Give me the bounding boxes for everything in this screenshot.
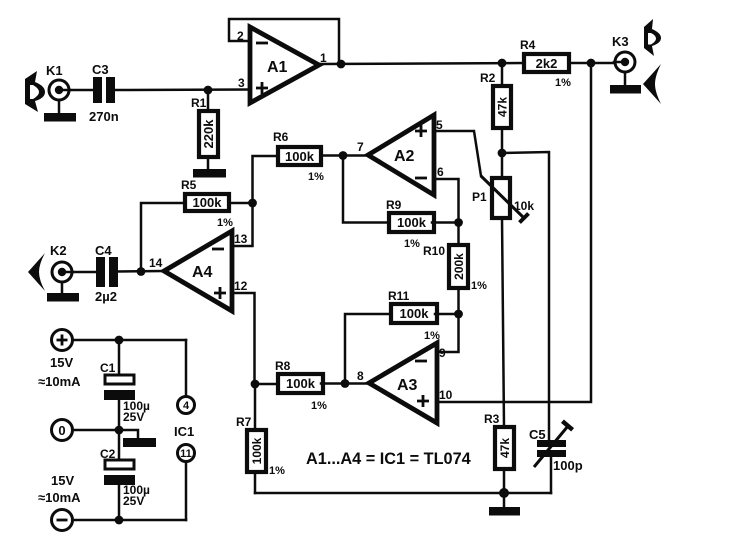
input arrow at K3 [643, 64, 661, 104]
node junction -15V [115, 516, 124, 525]
svg-text:25V: 25V [123, 410, 144, 424]
svg-text:2k2: 2k2 [536, 56, 558, 71]
svg-text:11: 11 [180, 448, 192, 460]
svg-text:≈10mA: ≈10mA [38, 374, 81, 389]
svg-text:14: 14 [149, 256, 163, 270]
wire C1 to 0 rail [118, 400, 121, 430]
svg-text:≈10mA: ≈10mA [38, 490, 81, 505]
wire node to P1 [501, 153, 504, 178]
svg-text:A3: A3 [397, 377, 418, 394]
wire 0 rail [73, 429, 119, 432]
IC1 pin 4 [178, 397, 195, 414]
node junction R9/R10 [454, 218, 463, 227]
svg-text:K3: K3 [612, 34, 629, 49]
op-amp A3 [369, 343, 437, 423]
node junction R2 top [498, 59, 507, 68]
node junction R5/pin13 [248, 199, 257, 208]
node junction K3 [587, 59, 596, 68]
svg-text:6: 6 [437, 165, 444, 179]
svg-text:7: 7 [357, 140, 364, 154]
wire -15V rail [73, 519, 186, 522]
wire A1 feedback loop pin2 [229, 19, 339, 64]
wire +rail to IC1 pin4 [185, 340, 188, 397]
node junction A3 pin8 [341, 379, 350, 388]
ground (bottom) [489, 493, 520, 516]
svg-text:100k: 100k [400, 306, 430, 321]
svg-text:1%: 1% [471, 280, 487, 292]
wire node to R7 [254, 384, 257, 430]
svg-text:R7: R7 [236, 415, 252, 429]
node junction R1 [204, 86, 213, 95]
svg-text:K1: K1 [46, 63, 63, 78]
svg-text:4: 4 [183, 400, 190, 412]
node junction 0 [115, 426, 124, 435]
connector K1 [49, 80, 70, 100]
capacitor C1 (electrolytic) [104, 375, 135, 400]
svg-text:9: 9 [439, 346, 446, 360]
op-amp A4 [164, 231, 232, 311]
svg-text:100k: 100k [397, 215, 427, 230]
svg-text:47k: 47k [496, 97, 510, 117]
svg-text:2µ2: 2µ2 [95, 289, 117, 304]
potentiometer P1 [481, 176, 529, 223]
svg-text:15V: 15V [50, 355, 73, 370]
op-amp A2 [368, 115, 434, 195]
ground (R1) [193, 169, 226, 178]
node junction R7/R8 [251, 380, 260, 389]
connector K3 [614, 52, 635, 72]
wire node to C1 [118, 340, 121, 375]
wire C5 to bottom rail [550, 457, 553, 493]
svg-text:R2: R2 [480, 71, 496, 85]
svg-text:1%: 1% [308, 171, 324, 183]
resistor R2 [493, 86, 511, 128]
wire R6 left down to A4 pin13 [233, 156, 278, 246]
wire 0 to C2 [118, 430, 121, 460]
wire A1 output [319, 63, 524, 64]
resistor R5 [185, 194, 229, 211]
svg-text:100k: 100k [250, 437, 264, 464]
svg-text:C1: C1 [100, 361, 116, 375]
wire node to A3 pin8 [345, 382, 369, 385]
svg-text:200k: 200k [452, 253, 466, 280]
svg-text:10k: 10k [514, 199, 534, 213]
wire node to C5 branch [502, 152, 549, 440]
op-amp A1 [250, 27, 319, 103]
resistor R6 [278, 147, 321, 165]
capacitor C3 [93, 77, 115, 103]
resistor R1 [199, 111, 218, 157]
wire node up to R5 [141, 203, 183, 272]
input arrow at K1 [25, 71, 45, 112]
resistor R4 [524, 54, 569, 72]
svg-text:K2: K2 [50, 243, 67, 258]
node junction C1 top [115, 336, 124, 345]
wire A4 pin12 down to R7 node [232, 293, 255, 384]
wire P1 to R3 [502, 218, 504, 427]
wire +15V rail [73, 339, 186, 342]
input arrow at K2 [28, 253, 45, 291]
wire node to R10 [457, 223, 460, 246]
wire C3 to A1 pin 3 [115, 88, 250, 91]
svg-text:R5: R5 [181, 178, 197, 192]
svg-text:3: 3 [238, 76, 245, 90]
svg-text:12: 12 [234, 279, 248, 293]
svg-text:8: 8 [357, 369, 364, 383]
wire R8 to node [321, 382, 345, 385]
svg-text:A1...A4 = IC1 = TL074: A1...A4 = IC1 = TL074 [306, 450, 471, 468]
wire R9 to node [432, 221, 459, 224]
resistor R9 [389, 213, 434, 232]
wire pin7 node down to R9 [343, 156, 389, 223]
svg-text:R1: R1 [191, 96, 207, 110]
wire R10 to node [457, 288, 460, 314]
svg-text:100k: 100k [286, 376, 316, 391]
wire bottom rail [255, 492, 551, 495]
IC1 pin 11 [178, 445, 195, 462]
svg-text:R3: R3 [484, 412, 500, 426]
svg-text:1%: 1% [555, 77, 571, 89]
svg-text:C3: C3 [92, 62, 109, 77]
svg-text:R6: R6 [273, 130, 289, 144]
connector K2 [52, 262, 73, 282]
svg-text:220k: 220k [201, 119, 216, 149]
svg-text:100p: 100p [553, 458, 583, 473]
svg-text:A1: A1 [267, 59, 288, 76]
resistor R11 [391, 304, 437, 323]
node junction A4 pin14 [137, 267, 146, 276]
node junction P1 top [498, 149, 507, 158]
supply terminal -15V [52, 510, 73, 531]
svg-text:P1: P1 [472, 190, 487, 204]
wire -rail to IC1 pin11 [185, 462, 188, 521]
resistor R7 [247, 430, 266, 472]
svg-text:0: 0 [58, 423, 65, 438]
wire R7 to bottom rail [254, 472, 257, 493]
ground (K1) [44, 100, 76, 122]
svg-text:1%: 1% [404, 238, 420, 250]
wire A2 pin6 down to R9 node [434, 179, 459, 222]
node junction A1 output [337, 60, 346, 69]
svg-text:100k: 100k [193, 195, 223, 210]
wire R11 left down to A3 pin8 node [345, 314, 391, 384]
wire R7 node to R8 [255, 383, 278, 386]
wire R5 to node [229, 202, 253, 205]
wire R4 to K3 [569, 62, 616, 65]
svg-text:15V: 15V [51, 473, 74, 488]
node junction R10/R11 [454, 310, 463, 319]
output arrow at K3 [644, 19, 661, 56]
svg-text:R9: R9 [386, 198, 402, 212]
resistor R8 [278, 374, 323, 393]
supply terminal 0 [52, 420, 73, 441]
wire node down to A3 pin 9 [437, 314, 459, 352]
wire K3 node down to A3 pin 10 [437, 63, 591, 402]
wire R6 to A2 pin7 [321, 154, 368, 157]
svg-text:IC1: IC1 [174, 424, 194, 439]
resistor R10 [449, 245, 468, 288]
svg-text:R11: R11 [388, 289, 410, 303]
wire K2 to C4 [73, 271, 97, 274]
svg-text:270n: 270n [89, 109, 119, 124]
wire C4 to A4 pin14 [118, 270, 164, 273]
svg-text:100k: 100k [285, 149, 315, 164]
node junction ground [499, 488, 509, 498]
svg-text:C5: C5 [529, 427, 546, 442]
svg-text:1%: 1% [269, 465, 285, 477]
svg-text:1%: 1% [311, 400, 327, 412]
node junction A2 pin7 [339, 151, 348, 160]
wire K1 to C3 [70, 89, 94, 92]
trimmer capacitor C5 [534, 421, 573, 467]
capacitor C4 [96, 257, 118, 287]
wire node to R2 [501, 63, 504, 86]
wire R2 to node [501, 128, 504, 153]
ground (0 rail) [119, 430, 156, 447]
ground (K3) [610, 72, 641, 94]
svg-text:47k: 47k [498, 438, 512, 458]
svg-text:13: 13 [234, 232, 248, 246]
wire node to R1 [207, 90, 210, 111]
svg-text:10: 10 [439, 388, 453, 402]
wire R11 to node [435, 313, 459, 316]
supply terminal +15V [52, 330, 73, 351]
svg-text:1%: 1% [217, 217, 233, 229]
svg-text:25V: 25V [123, 494, 144, 508]
svg-text:R4: R4 [520, 38, 536, 52]
wire A2 pin5 to P1 wiper [434, 131, 481, 176]
svg-text:A2: A2 [394, 148, 415, 165]
capacitor C2 (electrolytic) [104, 460, 135, 485]
svg-text:C4: C4 [95, 243, 112, 258]
svg-text:A4: A4 [192, 264, 213, 281]
ground (K2) [47, 282, 79, 302]
wire C2 to -15V rail [118, 485, 121, 520]
wire R1 to ground [207, 157, 210, 170]
svg-text:C2: C2 [100, 447, 116, 461]
wire R3 to ground junction [503, 469, 506, 493]
svg-text:R8: R8 [275, 359, 291, 373]
svg-text:R10: R10 [423, 244, 445, 258]
resistor R3 [495, 427, 514, 469]
